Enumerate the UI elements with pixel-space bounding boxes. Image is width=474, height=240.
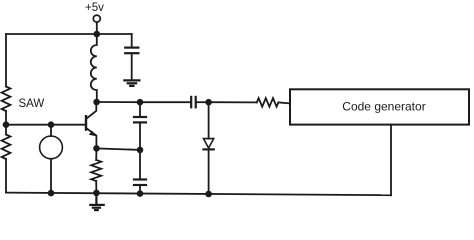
capacitor C divider lower plates xyxy=(134,180,146,186)
resistor (SAW branch upper) xyxy=(2,87,11,112)
wire: divider column upper stub xyxy=(139,102,141,116)
capacitor C coupling plates xyxy=(191,97,196,107)
resistor R series xyxy=(257,98,279,107)
wire: emitter to resistor xyxy=(95,148,97,160)
resistor (left lower) xyxy=(2,135,11,160)
wire: collector rail to divider column xyxy=(97,101,140,103)
node: +5V junction xyxy=(94,31,101,38)
node: divider middle junction xyxy=(137,147,144,154)
node: collector junction xyxy=(93,99,100,106)
node: base rail left junction xyxy=(3,121,10,128)
transistor Q1 emitter arrow xyxy=(89,131,96,137)
wire: left vertical upper xyxy=(5,34,7,87)
transistor Q1 emitter lead xyxy=(87,128,97,148)
wire: code generator return to bottom rail xyxy=(390,125,392,196)
wire: series resistor to code generator box xyxy=(278,102,290,103)
node: resonator top junction xyxy=(48,121,55,128)
node: emitter junction xyxy=(93,145,100,152)
wire: left vertical lower to bottom rail xyxy=(5,159,7,193)
wire: bypass capacitor to ground xyxy=(131,54,133,79)
node: divider top junction xyxy=(137,99,144,106)
wire: coupling capacitor to diode node xyxy=(197,101,209,103)
capacitor C bypass plates xyxy=(125,48,138,54)
wire: +5v terminal to top rail xyxy=(96,22,98,34)
transistor Q1 collector lead xyxy=(87,102,97,119)
wire: base rail xyxy=(6,124,86,126)
wire: divider column middle xyxy=(139,124,141,150)
transistor Q1 base bar xyxy=(85,116,87,129)
wire: left vertical between resistors xyxy=(5,111,7,135)
wire: bottom rail xyxy=(6,193,391,196)
diode D1 xyxy=(204,139,214,150)
node: emitter resistor ground junction xyxy=(93,190,100,197)
node: divider bottom junction xyxy=(137,190,144,197)
wire: emitter rail xyxy=(97,148,141,150)
wire: diode node to series resistor xyxy=(209,101,257,103)
wire: top rail left section xyxy=(6,33,97,35)
inductor L1 xyxy=(91,34,97,102)
wire: collector rail to coupling capacitor xyxy=(140,101,190,103)
wire: resonator bottom stub xyxy=(50,159,52,193)
wire: divider column to bottom rail xyxy=(139,186,141,194)
wire: top rail right section to bypass capacitor xyxy=(97,33,132,35)
capacitor C divider upper plates xyxy=(134,117,146,122)
resistor R emitter xyxy=(91,160,101,181)
node: diode bottom junction xyxy=(205,191,212,198)
svg-text:Code generator: Code generator xyxy=(342,99,425,113)
wire: divider column lower xyxy=(139,150,141,179)
ground (below emitter resistor) xyxy=(90,193,103,210)
ground (below bypass capacitor) xyxy=(124,80,139,86)
wire: emitter resistor to bottom rail xyxy=(95,181,97,193)
wire: resonator top stub xyxy=(50,125,52,136)
wire: diode anode stub xyxy=(208,102,210,138)
code generator box xyxy=(290,89,469,124)
wire: diode cathode to bottom rail xyxy=(208,150,210,194)
capacitor C bypass top stub xyxy=(131,34,133,46)
svg-text:+5v: +5v xyxy=(85,2,104,14)
node: resonator bottom junction xyxy=(48,190,55,197)
+5v terminal xyxy=(93,15,100,22)
svg-text:SAW: SAW xyxy=(19,98,45,110)
node: diode top junction xyxy=(205,99,212,106)
resonator circle xyxy=(40,136,63,159)
